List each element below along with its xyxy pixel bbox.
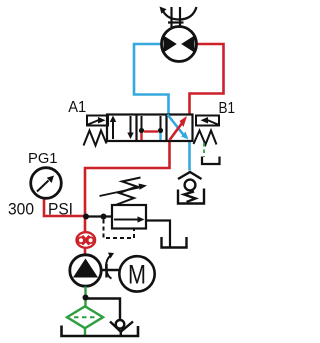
drain dashed green <box>203 143 205 157</box>
motor shaft <box>168 7 184 27</box>
valve position 3 crossed arrows <box>168 115 189 141</box>
wire green pump suction <box>84 287 86 307</box>
valve position 2 center <box>139 116 163 140</box>
junction dot suction <box>83 295 89 301</box>
hydraulic motor M1 <box>162 27 197 62</box>
spring left <box>84 131 107 146</box>
wire red gauge branch <box>44 198 85 217</box>
relief pilot dashed <box>104 220 135 239</box>
pump P1 <box>70 255 101 286</box>
wire green filter-to-tank <box>84 328 86 336</box>
wire blue valve-to-check <box>188 140 191 171</box>
svg-text:300: 300 <box>8 200 34 218</box>
svg-text:A1: A1 <box>68 99 86 116</box>
wire relief inlet <box>86 215 112 217</box>
svg-text:M: M <box>128 260 146 290</box>
tank main <box>62 326 139 337</box>
filter F1 <box>67 306 103 328</box>
wire relief outlet <box>146 221 170 247</box>
svg-text:B1: B1 <box>219 100 236 117</box>
wire red motor-to-valve <box>190 44 224 115</box>
bypass check valve <box>110 320 133 336</box>
tank under check <box>178 189 204 204</box>
valve position 1 arrows <box>110 116 134 140</box>
solenoid left <box>87 116 108 126</box>
relief adjust arrow <box>100 184 148 197</box>
coupling rotation arrowhead <box>108 253 114 259</box>
junction dot main-gauge <box>83 214 89 220</box>
flow meter FM1 <box>77 232 96 248</box>
relief valve RV1 <box>112 205 146 229</box>
svg-text:PG1: PG1 <box>28 151 58 167</box>
gauge PG1 <box>31 168 62 199</box>
rotation arrow <box>160 7 197 20</box>
relief spring <box>116 178 141 206</box>
electric motor M <box>119 256 154 291</box>
junction dot pilot <box>101 214 107 220</box>
tank relief <box>162 237 187 248</box>
spring right <box>194 131 217 145</box>
shaft coupling <box>101 256 121 279</box>
wire blue motor-to-valve <box>134 44 169 115</box>
wire black bypass <box>86 299 121 321</box>
check valve to tank (port A drain) <box>178 172 202 202</box>
solenoid right <box>196 116 219 126</box>
valve body V1 <box>107 115 193 142</box>
wire red pump pressure line <box>85 141 170 256</box>
svg-text:PSI: PSI <box>48 200 73 218</box>
drain tank small <box>202 157 220 165</box>
